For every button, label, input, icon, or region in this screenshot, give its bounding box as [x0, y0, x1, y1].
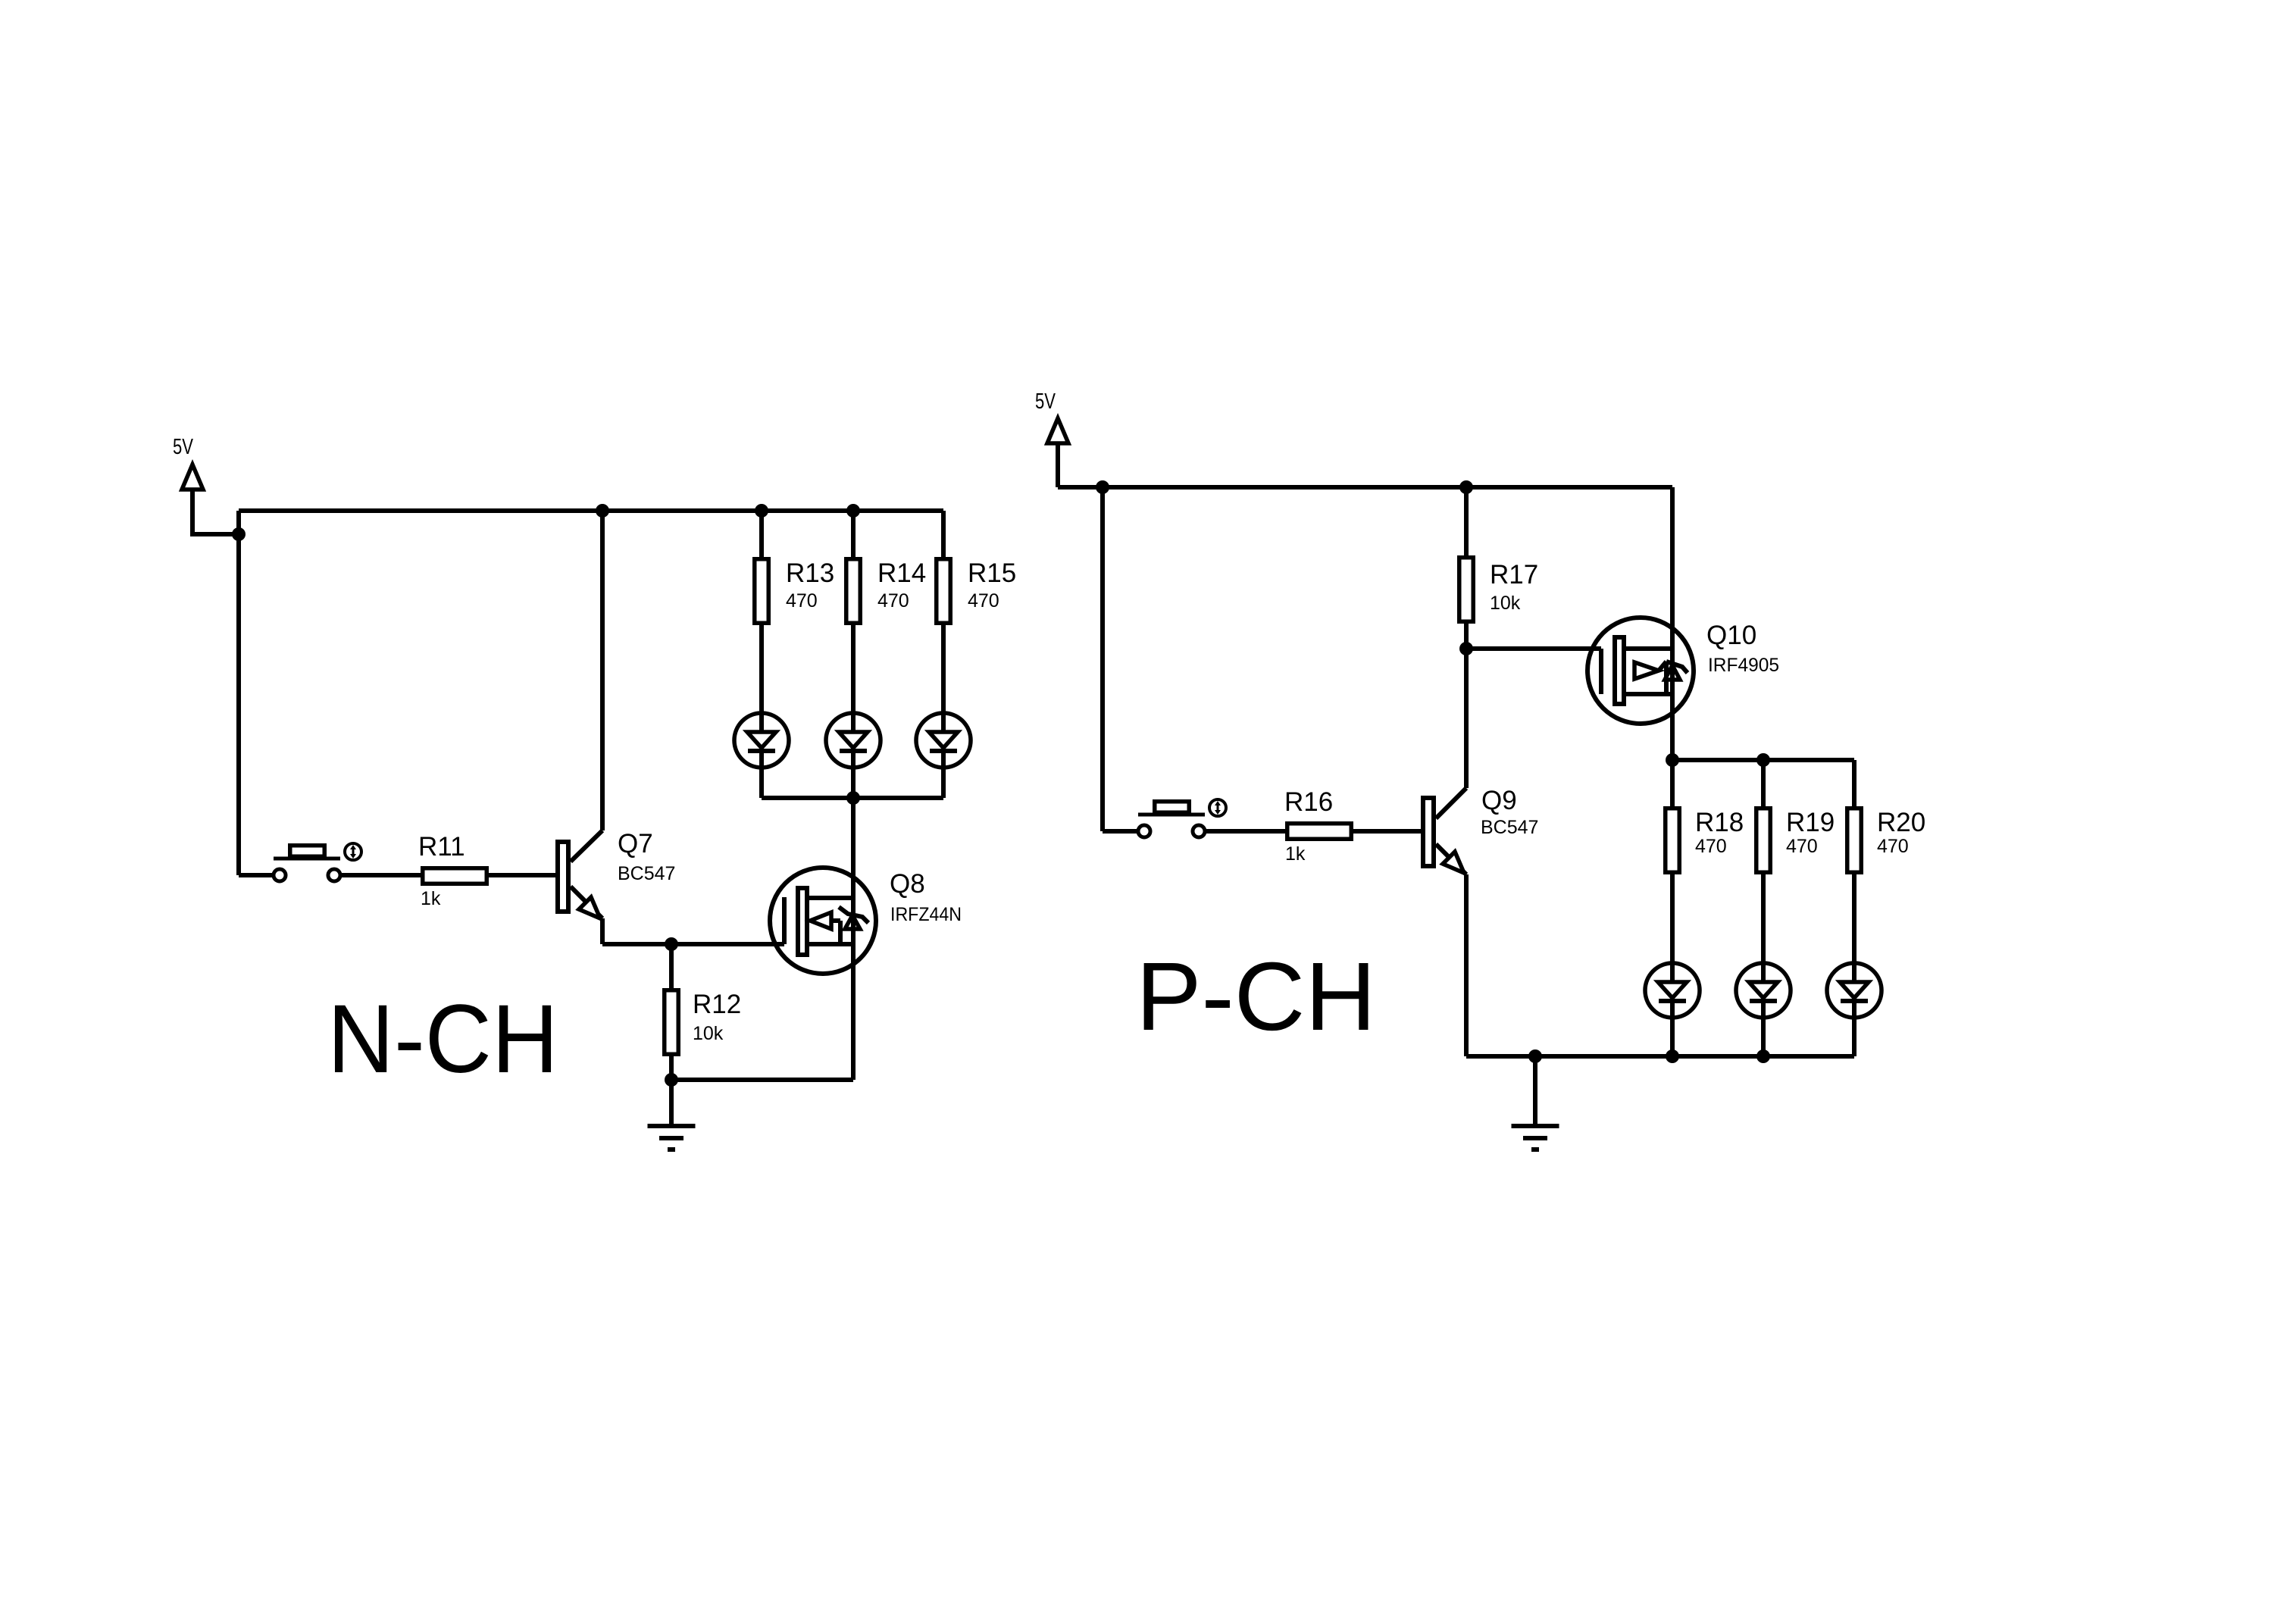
svg-text:R20: R20 [1877, 808, 1925, 837]
svg-text:Q8: Q8 [890, 869, 925, 899]
svg-text:Q7: Q7 [618, 829, 653, 859]
svg-text:R12: R12 [693, 990, 741, 1019]
svg-text:470: 470 [968, 590, 999, 612]
svg-text:R16: R16 [1284, 787, 1333, 817]
svg-text:BC547: BC547 [1481, 817, 1538, 838]
svg-text:Q10: Q10 [1706, 621, 1756, 650]
svg-text:R13: R13 [786, 558, 834, 588]
svg-text:IRF4905: IRF4905 [1708, 655, 1779, 676]
svg-text:R18: R18 [1695, 808, 1744, 837]
svg-text:N-CH: N-CH [327, 985, 558, 1093]
svg-text:P-CH: P-CH [1136, 943, 1376, 1051]
svg-text:10k: 10k [1490, 593, 1521, 614]
svg-text:R15: R15 [968, 558, 1016, 588]
svg-text:R14: R14 [877, 558, 926, 588]
svg-text:1k: 1k [421, 888, 441, 909]
svg-text:10k: 10k [693, 1023, 724, 1044]
svg-text:5V: 5V [1035, 389, 1056, 414]
svg-text:470: 470 [1877, 836, 1909, 857]
svg-text:470: 470 [1786, 836, 1818, 857]
svg-text:R19: R19 [1786, 808, 1835, 837]
svg-text:IRFZ44N: IRFZ44N [890, 904, 962, 925]
svg-text:470: 470 [1695, 836, 1727, 857]
svg-text:470: 470 [877, 590, 909, 612]
svg-text:R17: R17 [1490, 560, 1538, 590]
svg-text:Q9: Q9 [1481, 786, 1517, 815]
svg-text:1k: 1k [1285, 843, 1306, 865]
svg-text:BC547: BC547 [618, 863, 675, 884]
svg-text:470: 470 [786, 590, 818, 612]
svg-text:R11: R11 [418, 832, 465, 862]
svg-text:5V: 5V [173, 435, 193, 459]
